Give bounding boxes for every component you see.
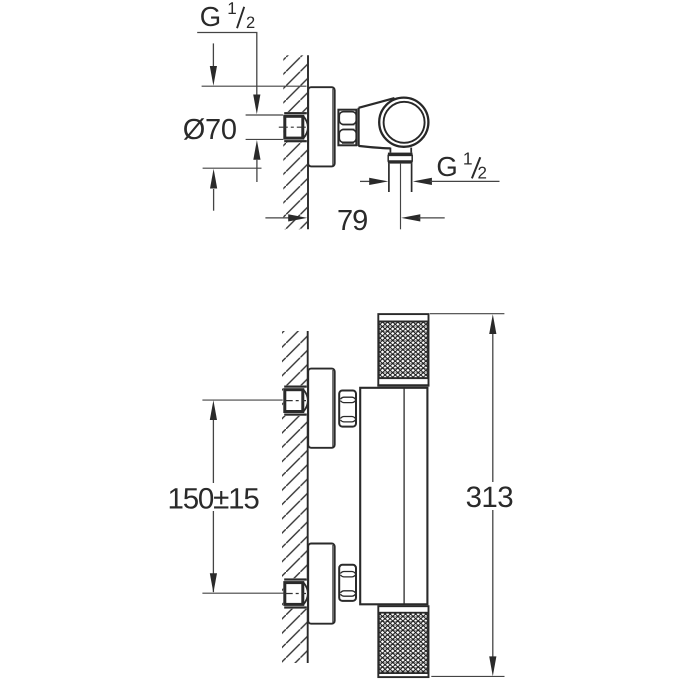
fitting flange bar bottom (284, 140, 307, 142)
dimension G 1/2 (outlet) (360, 148, 500, 185)
svg-text:G: G (436, 151, 457, 182)
fitting nut square (285, 116, 303, 138)
wall union fitting lower (lower view) (283, 578, 308, 609)
hex union nut (top view) (338, 110, 356, 146)
wall face line (top view) (307, 55, 309, 229)
label underline (197, 32, 257, 34)
svg-text:150±15: 150±15 (168, 482, 260, 515)
hex union nut upper (lower view) (339, 391, 356, 427)
svg-text:2: 2 (246, 14, 255, 32)
top handle (lower view) (377, 314, 429, 386)
escutcheon upper (lower view) (308, 369, 335, 448)
wall union fitting upper (lower view) (283, 385, 308, 416)
outlet pipe centerline (400, 164, 402, 230)
dimension 313 (430, 314, 517, 677)
escutcheon inner edge line (332, 89, 334, 166)
fitting flange bar top (283, 112, 307, 143)
valve head outer circle (379, 98, 428, 147)
svg-text:Ø70: Ø70 (183, 114, 237, 146)
svg-text:2: 2 (478, 164, 487, 183)
svg-text:1: 1 (227, 0, 236, 18)
outlet neck (390, 148, 411, 153)
wall face line (lower view) (307, 331, 309, 663)
dimension 79 (265, 205, 444, 237)
bottom handle (lower view) (378, 606, 428, 677)
wall union fitting (top view) (279, 112, 308, 143)
extension line escutcheon top (202, 85, 307, 87)
wall hatching (top view) (283, 55, 307, 229)
valve body (top view) (358, 98, 394, 148)
body internal panel line (403, 388, 405, 605)
extension line fitting bottom (246, 138, 284, 140)
outlet pipe (389, 164, 412, 192)
svg-text:1: 1 (463, 148, 473, 168)
extension line escutcheon bottom (203, 167, 262, 169)
thermostat body (lower view) (360, 388, 427, 605)
hex union nut lower (lower view) (339, 565, 356, 601)
fitting end bulge (304, 116, 308, 138)
arrow down to escutcheon top (210, 43, 217, 85)
svg-text:313: 313 (466, 481, 514, 514)
dimension 150±15 (163, 400, 284, 593)
arrowhead down to fitting top (253, 95, 260, 115)
extension line fitting top (246, 114, 284, 116)
arrow up to fitting bottom (253, 140, 260, 182)
arrow up to escutcheon bottom (210, 169, 217, 211)
outlet union nut bands (388, 153, 413, 164)
escutcheon (top view, side profile) (308, 87, 335, 166)
escutcheon lower (lower view) (308, 544, 335, 624)
fitting centerline (dash-dot) (279, 126, 306, 128)
leader vertical (256, 33, 258, 98)
dimension label G 1/2 (top left) (197, 0, 260, 114)
valve head inner circle (384, 102, 425, 143)
svg-text:79: 79 (337, 205, 367, 237)
wall hatching (lower view) (282, 331, 308, 663)
svg-text:G: G (200, 1, 221, 32)
